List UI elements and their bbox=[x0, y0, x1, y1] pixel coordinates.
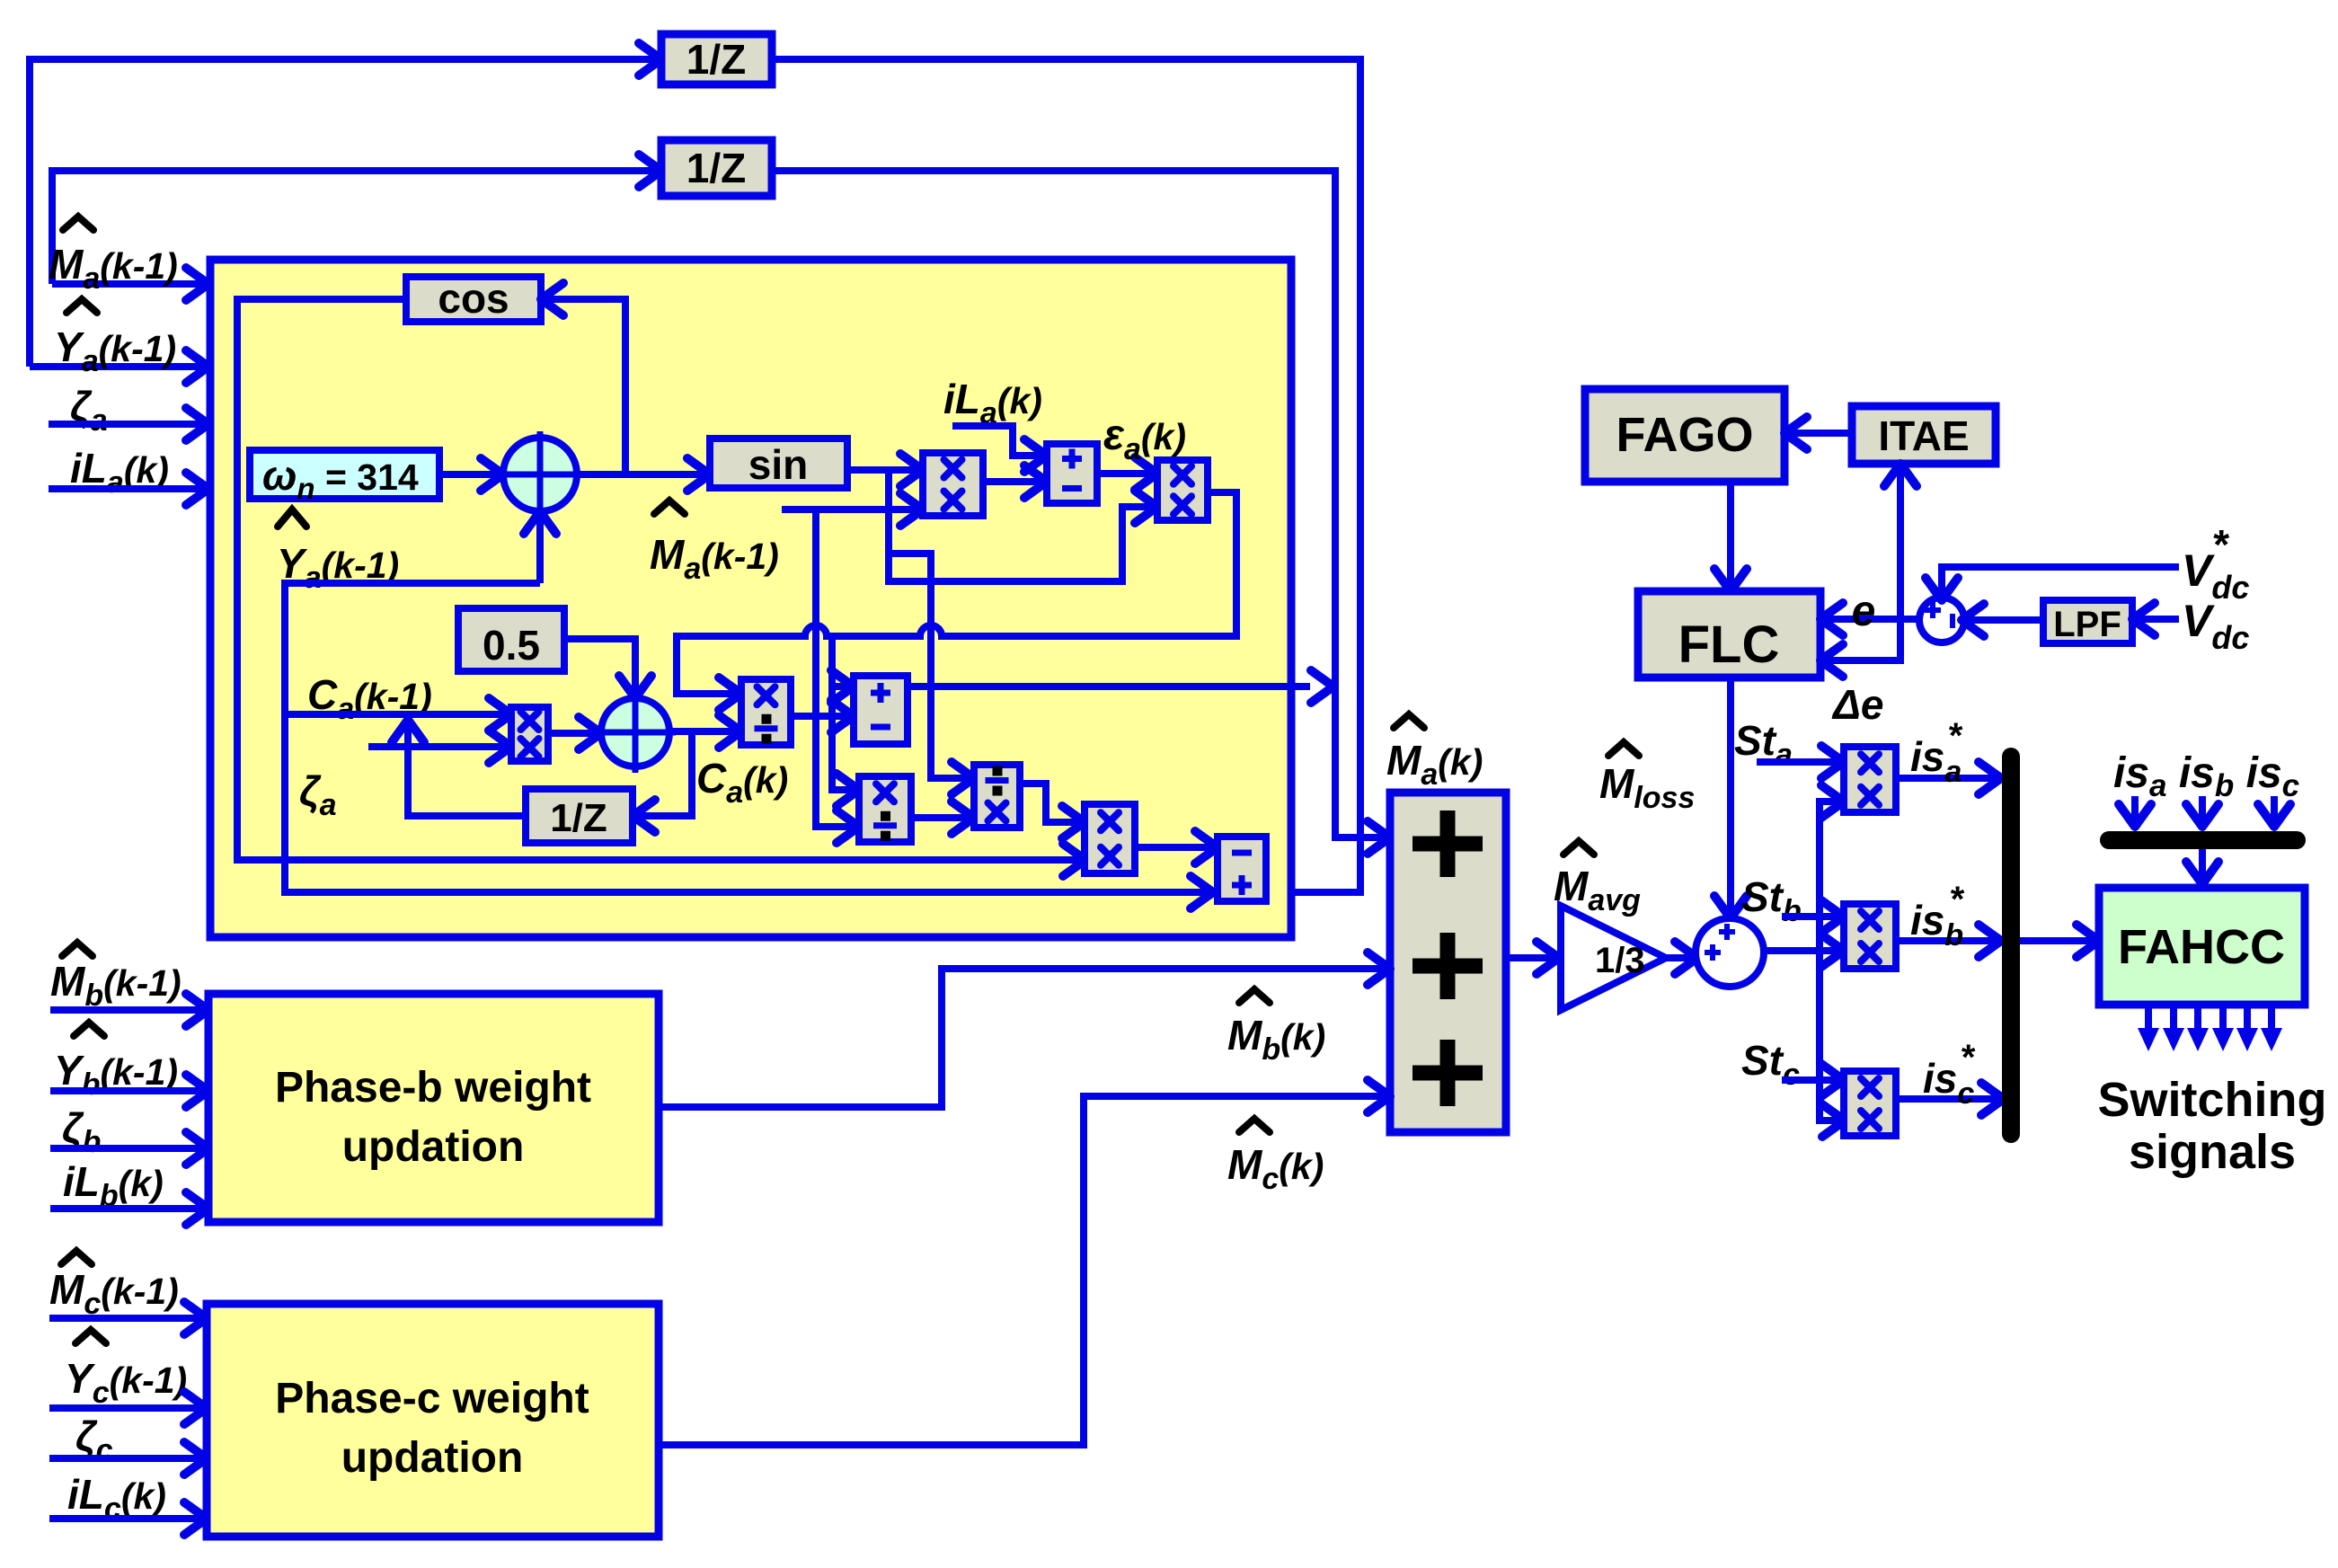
label Yc(k-1) input bbox=[75, 1330, 106, 1343]
label Ma(k-1) internal bbox=[654, 501, 685, 514]
label Ma(k-1) top input bbox=[63, 217, 93, 230]
svg-text:cos: cos bbox=[438, 275, 509, 322]
wire sin tap branch to div-x upper input bbox=[889, 554, 969, 778]
LPF block bbox=[2043, 600, 2132, 643]
label Mb(k) bbox=[1239, 989, 1270, 1003]
wire iLb(k) input row bbox=[50, 1205, 203, 1212]
wire LPF to sum4 bbox=[1967, 616, 2043, 624]
wire gain output into sum3 bbox=[1666, 954, 1692, 961]
gain triangle 1/3 bbox=[1561, 906, 1666, 1010]
svg-text:1/Z: 1/Z bbox=[686, 36, 746, 83]
wire riser up to St-a multiplier lower input bbox=[1820, 802, 1838, 951]
wire wn to sum1 bbox=[439, 471, 498, 478]
wire St-a into multiplier bbox=[1757, 758, 1838, 766]
wire is-b-star output to bus bar and on to FAHCC bbox=[1896, 937, 1996, 944]
wire sum1 to sin bbox=[577, 471, 704, 478]
label Mb(k-1) input bbox=[62, 943, 93, 956]
wire 1/Z2 output to vertical V1 down to adder input 1 bbox=[772, 171, 1385, 837]
svg-text:FAHCC: FAHCC bbox=[2118, 920, 2285, 974]
svg-text:LPF: LPF bbox=[2053, 605, 2121, 644]
wire Vdc into LPF bbox=[2138, 616, 2179, 623]
sum2 circle bbox=[601, 698, 669, 766]
wire St-b into multiplier bbox=[1782, 913, 1838, 920]
label Ma(k) bbox=[1394, 714, 1424, 728]
wire is-c-star output to bus bar bbox=[1896, 1095, 1998, 1103]
switching signal output arrows bbox=[2145, 1005, 2152, 1030]
wire into cos from sin-line junction bbox=[545, 299, 625, 474]
wire S1 output to eps multiplier bbox=[1097, 470, 1152, 477]
wire phase-b output to adder input 2 bbox=[659, 969, 1385, 1107]
wire Ma(k-1) stub into mult1 lower input bbox=[782, 506, 917, 513]
wires is currents down to sensor bar bbox=[2131, 796, 2139, 819]
FLC block bbox=[1638, 591, 1820, 678]
wire is-a-star output to bus bar bbox=[1896, 775, 1996, 782]
black sensor bar horizontal bbox=[2109, 831, 2297, 849]
svg-text:Switching: Switching bbox=[2098, 1073, 2327, 1127]
subtractor S2 (Ma output) bbox=[854, 676, 908, 744]
wire St-c into multiplier bbox=[1782, 1076, 1838, 1084]
wire 1/Z3 output back up into Ca(k-1) row bbox=[408, 725, 526, 816]
wire M3 output into sum2 bbox=[548, 730, 596, 737]
wire iLa(k) input row bbox=[49, 485, 203, 492]
wire Mb(k-1) input row bbox=[50, 1006, 203, 1014]
svg-text:updation: updation bbox=[342, 1123, 525, 1171]
wire ITAE to FAGO bbox=[1790, 430, 1852, 437]
svg-text:FLC: FLC bbox=[1678, 616, 1780, 674]
wire iLc(k) input row bbox=[49, 1515, 203, 1522]
wire 1/Z1 output to right vertical V2 down to subtract-block output bbox=[772, 59, 1360, 892]
label Ya(k-1) internal bbox=[278, 509, 306, 527]
multiplier St-a bbox=[1844, 747, 1896, 812]
sum3 circle bbox=[1696, 918, 1764, 987]
svg-text:ωn = 314: ωn = 314 bbox=[262, 452, 419, 505]
label Mavg bbox=[1563, 841, 1594, 855]
svg-text:1/Z: 1/Z bbox=[686, 145, 746, 191]
wire net-Ya-feedback top line into 1/Z1 bbox=[30, 59, 656, 367]
wire FAGO down to FLC bbox=[1727, 482, 1734, 586]
svg-text:sin: sin bbox=[748, 441, 808, 488]
label Ya(k-1) top input bbox=[66, 299, 97, 313]
wire sin tap down to eps mult lower input via y647 bbox=[889, 470, 1152, 581]
wire Vdc-ref into sum4 bbox=[1942, 567, 2179, 595]
svg-text:Δe: Δe bbox=[1831, 681, 1883, 728]
multiplier M4 bbox=[1085, 804, 1135, 873]
wire D3 output to multiplier M4 upper input bbox=[1020, 784, 1079, 822]
wire Ca(k) tap down into 1/Z3 bbox=[638, 731, 692, 816]
wire delta-e into FLC bbox=[1826, 619, 1900, 660]
wire phase-c output to adder input 3 bbox=[659, 1096, 1385, 1445]
wire Ma(k-1) input row into phase-a box bbox=[52, 280, 203, 288]
multiplier St-c bbox=[1844, 1071, 1896, 1136]
delay block 1/Z (Ya feedback) bbox=[661, 34, 772, 84]
subtractor S3 (Ya output) bbox=[1218, 837, 1266, 901]
label Mloss bbox=[1608, 742, 1639, 756]
wire zeta-c input row bbox=[49, 1455, 203, 1462]
constant block wn=314 bbox=[250, 450, 439, 499]
svg-text:1/Z: 1/Z bbox=[550, 796, 607, 840]
wire D2 output to div-x lower input bbox=[911, 814, 969, 821]
svg-text:0.5: 0.5 bbox=[483, 622, 540, 669]
FAGO block bbox=[1585, 389, 1784, 482]
wire Yb(k-1) input row bbox=[50, 1087, 203, 1094]
multiplier M3 (Ca x zeta) bbox=[511, 707, 548, 761]
svg-text:isa isb isc: isa isb isc bbox=[2113, 749, 2299, 803]
wire riser down to St-c multiplier lower input bbox=[1820, 951, 1839, 1121]
wire sensor bar into FAHCC bbox=[2199, 849, 2206, 877]
wire iLa stub into plus-minus-eps upper input bbox=[952, 426, 1041, 456]
phase-c weight updation block (yellow) bbox=[207, 1304, 659, 1537]
svg-text:Phase-b weight: Phase-b weight bbox=[275, 1064, 591, 1112]
wire M1 output to plus-minus-eps bbox=[983, 478, 1041, 485]
multiply-divide D1 bbox=[741, 679, 791, 745]
divide-multiply D3 bbox=[974, 765, 1020, 828]
multiplier St-b bbox=[1844, 904, 1896, 969]
wire M4 output to minus-plus block upper input bbox=[1135, 844, 1212, 851]
label Yb(k-1) input bbox=[74, 1023, 104, 1036]
black bus bar vertical bbox=[2002, 757, 2020, 1134]
phase-b weight updation block (yellow) bbox=[208, 994, 659, 1222]
wire Ca(k-1) row into mult-zeta upper input bbox=[285, 711, 506, 718]
ITAE block bbox=[1852, 406, 1996, 464]
wire D1 output to subtractor2 lower input bbox=[791, 713, 848, 720]
wire zeta-a input row bbox=[49, 421, 203, 428]
wire Mc(k-1) input row bbox=[49, 1315, 203, 1322]
sum1 circle bbox=[503, 438, 577, 511]
wire eps tap riser B to subtractor2 upper input and x-div lower bbox=[832, 636, 854, 790]
wire eps output right-down-left long H1 with hops to x-div1 upper input bbox=[677, 492, 1236, 694]
cos block bbox=[406, 277, 541, 322]
svg-text:FAGO: FAGO bbox=[1616, 408, 1753, 462]
label Mc(k-1) input bbox=[61, 1251, 92, 1264]
svg-text:signals: signals bbox=[2129, 1125, 2296, 1179]
delay block 1/Z (Ca) bbox=[526, 789, 633, 843]
sum4 circle bbox=[1919, 598, 1964, 642]
wire zeta-a row into mult-zeta lower input bbox=[368, 743, 506, 750]
wire Ma(k) output to vertical V1 junction bbox=[908, 683, 1310, 690]
wire Ya(k-1) input row into phase-a box bbox=[30, 363, 203, 370]
adder block (three plus) bbox=[1390, 793, 1506, 1132]
wire sum2 output to x-div1 lower input bbox=[669, 728, 736, 735]
wire sin output to mult1 upper input bbox=[847, 466, 917, 474]
subtractor S1 (iLa - M1) bbox=[1047, 444, 1097, 503]
wire adder output to gain 1/3 bbox=[1506, 954, 1554, 961]
wire zeta-b input row bbox=[50, 1145, 203, 1152]
svg-text:e: e bbox=[1852, 588, 1876, 635]
multiplier M1 (sin x Ma) bbox=[923, 453, 983, 516]
label Mc(k) bbox=[1239, 1119, 1270, 1132]
wire cos output feedback down-left-bottom to multiplier lower input bbox=[237, 299, 1080, 860]
phase-a weight updation block (yellow) bbox=[210, 260, 1291, 937]
svg-text:1/3: 1/3 bbox=[1595, 941, 1645, 980]
delay block 1/Z (Ma feedback) bbox=[661, 140, 772, 196]
wire e into FLC bbox=[1826, 616, 1922, 623]
wire Yc(k-1) input row bbox=[49, 1404, 203, 1412]
svg-text:updation: updation bbox=[341, 1434, 524, 1482]
wire e junction to ITAE (up) bbox=[1897, 469, 1904, 619]
wire FLC output down to sum3 bbox=[1727, 678, 1734, 913]
sin block bbox=[710, 439, 847, 488]
wire net-Ma-feedback line into 1/Z2 bbox=[52, 171, 656, 284]
svg-text:ITAE: ITAE bbox=[1878, 412, 1969, 459]
wire Ya internal up into sum1 bottom and long bottom run to minus-plus block bbox=[536, 517, 544, 583]
FAHCC block bbox=[2099, 888, 2305, 1005]
wire sum3 output to St multiplier riser bbox=[1764, 947, 1838, 954]
svg-text:Phase-c weight: Phase-c weight bbox=[275, 1375, 589, 1422]
multiply-divide D2 bbox=[859, 776, 911, 842]
wire Ma riser down to x-div block lower input bbox=[816, 509, 854, 827]
wire 0.5 into sum2 top bbox=[564, 639, 635, 693]
0.5 constant block bbox=[458, 608, 564, 671]
multiplier M2 (eps) bbox=[1157, 460, 1208, 520]
